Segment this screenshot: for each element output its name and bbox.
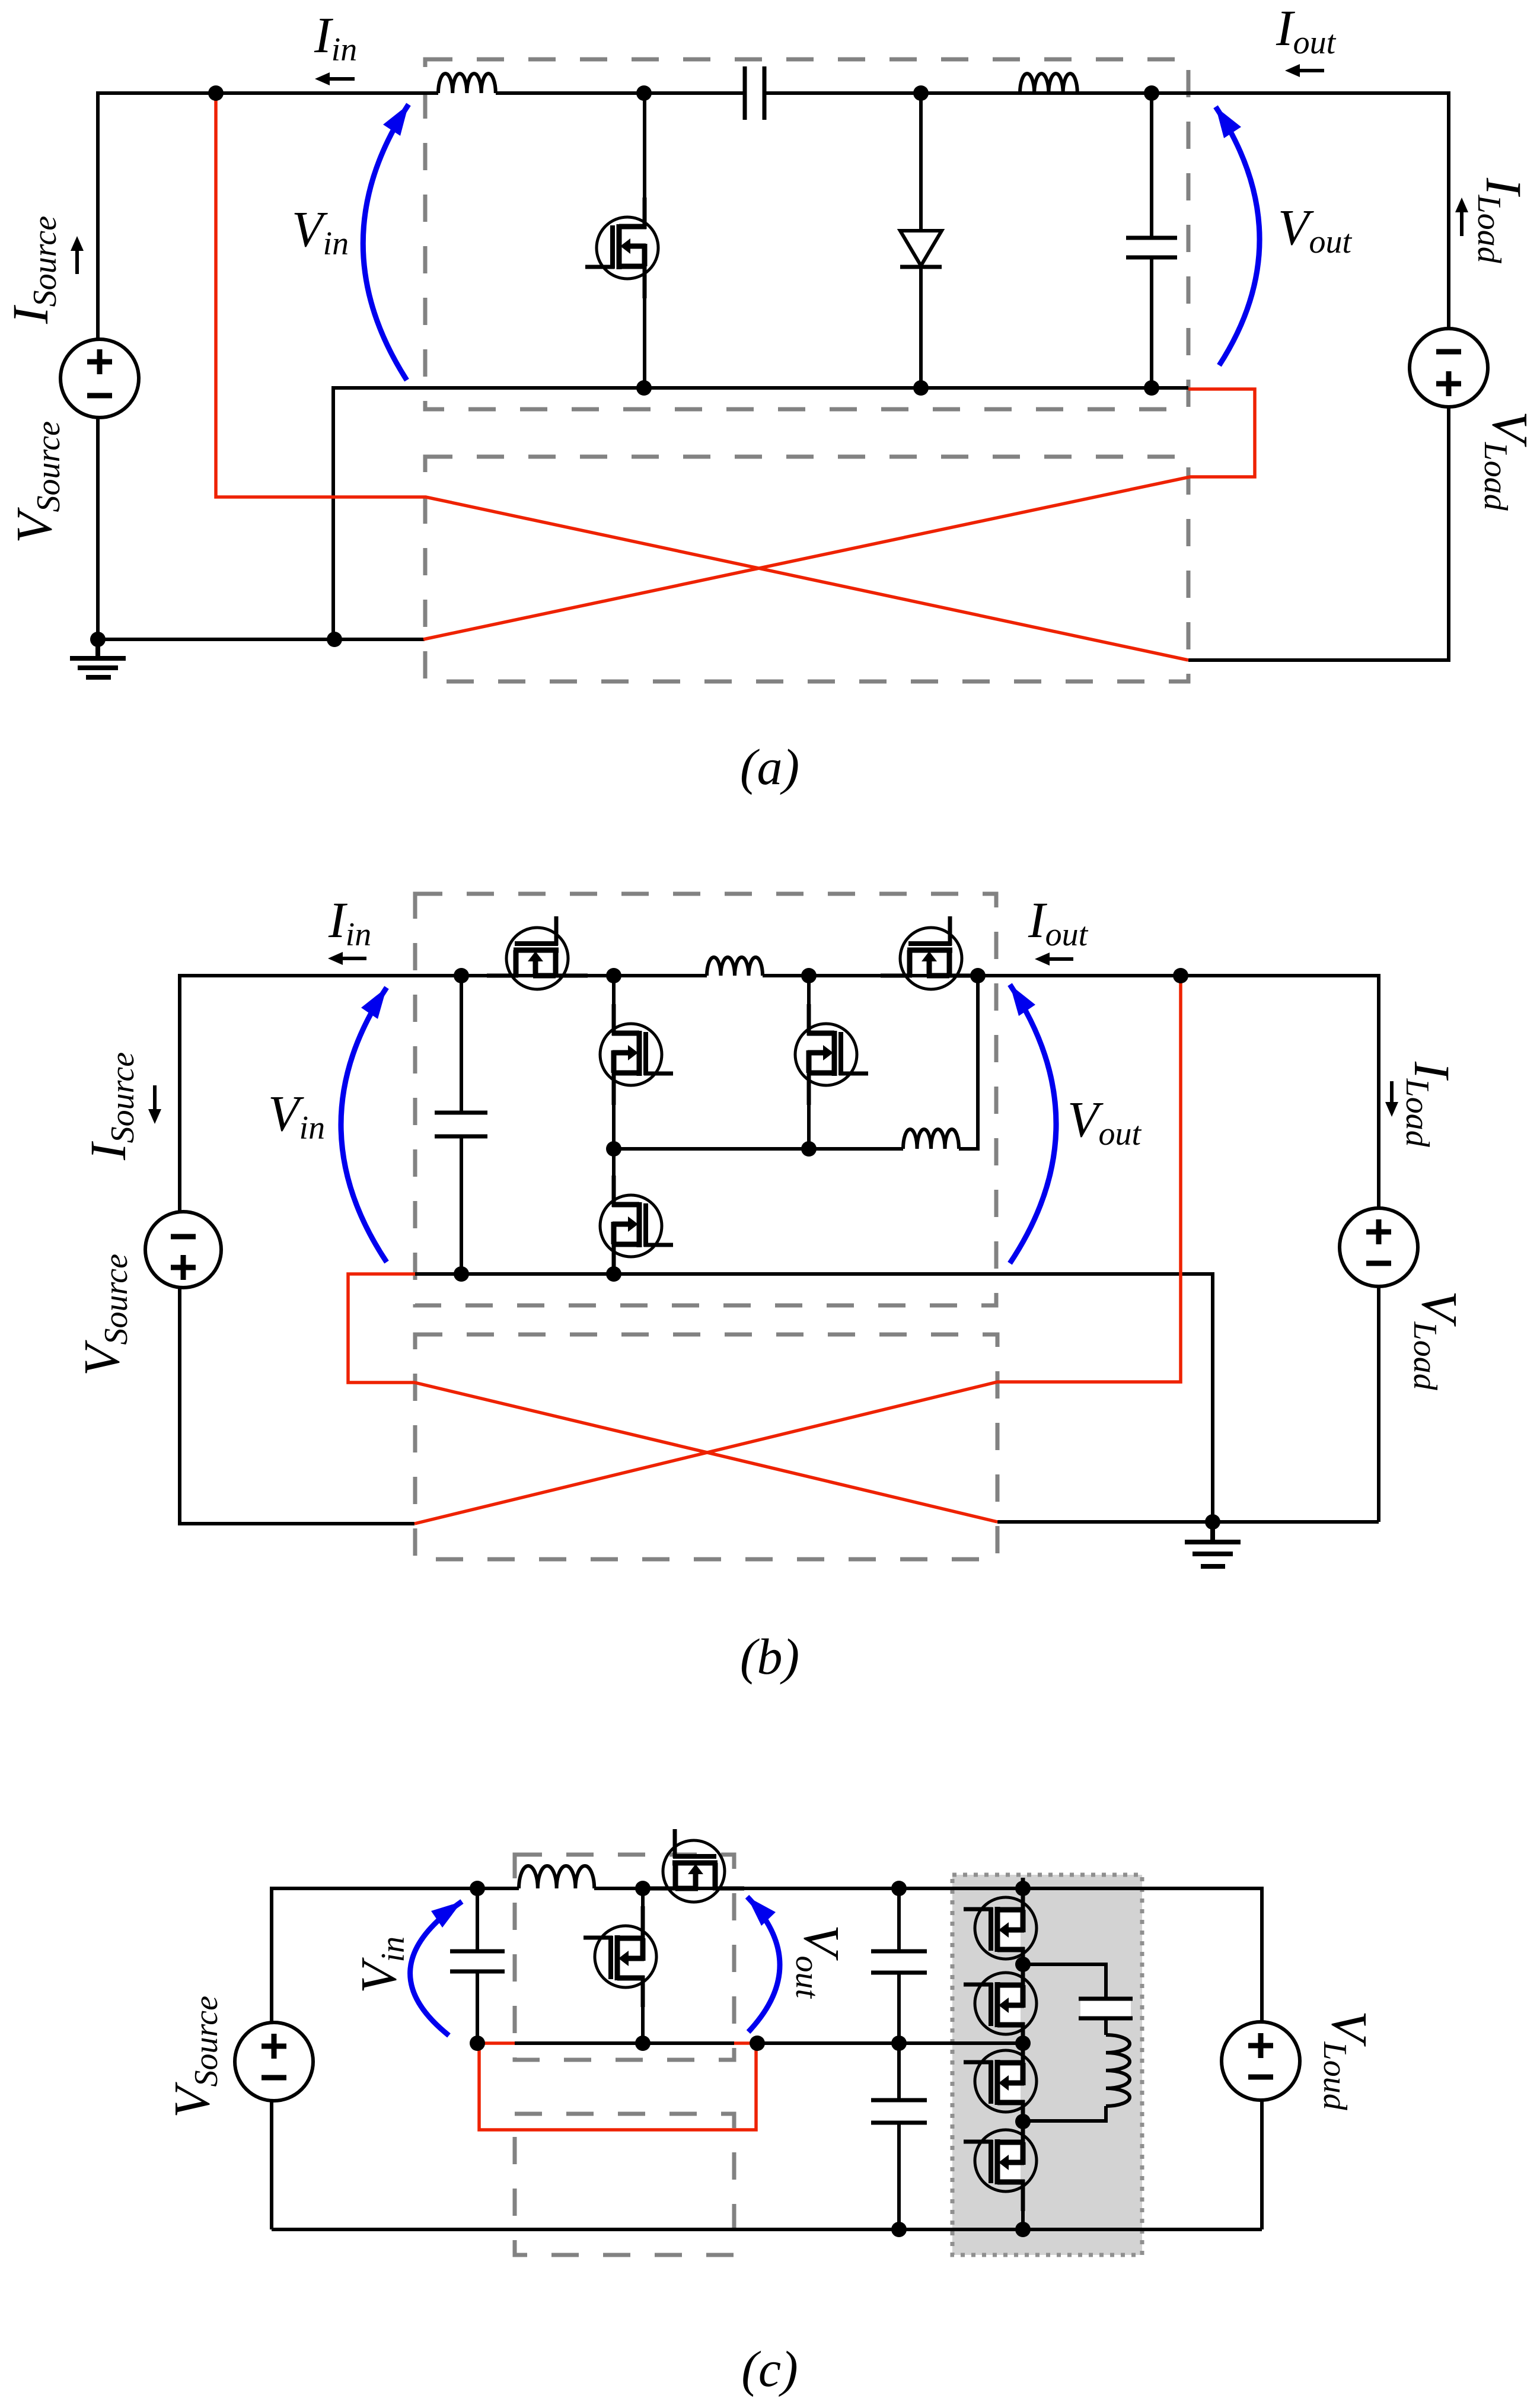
wire: LC branch top (c) — [1023, 1964, 1106, 1998]
arrow ILoad down (b) — [1385, 1081, 1398, 1117]
red wire: U link (c) — [479, 2043, 756, 2130]
wire: mid rail (b) — [614, 1147, 903, 1151]
voltage source Vsource circle (c) — [235, 2022, 313, 2101]
wire: source to ground (a) — [96, 416, 100, 639]
wire: L2 to top rail (b) — [959, 976, 978, 1149]
arrow Isource down (b) — [148, 1085, 161, 1124]
wire: Q3 branch (b) — [807, 976, 811, 1149]
red wire: bottom rail to interconnect (b) — [348, 1274, 997, 1522]
node: diode top (a) — [913, 85, 929, 101]
node: mid rail left (b) — [606, 1141, 621, 1157]
transistor Q2 (b) — [600, 1004, 673, 1105]
wire: Q4 branch (b) — [612, 1149, 616, 1274]
wire: Cin branch (b) — [460, 976, 463, 1274]
wire: converter return rail (a) — [333, 388, 1188, 639]
interconnect dashed box (c) — [515, 2114, 734, 2255]
node: ground left (a) — [90, 632, 106, 647]
svg-text:Iout: Iout — [1028, 891, 1089, 953]
node: Q4 source (b) — [606, 1266, 621, 1282]
red wire: mid rail stub left (c) — [477, 2041, 515, 2045]
interconnect dashed box (b) — [415, 1334, 997, 1559]
wire: LC branch bottom (c) — [1104, 2019, 1108, 2035]
node: red right (c) — [750, 2036, 765, 2051]
svg-text:Vin: Vin — [292, 200, 349, 262]
transistor Q3 (b) — [795, 1004, 868, 1105]
transistor Qc2 (c) — [964, 1953, 1037, 2054]
node: Clo bottom (c) — [891, 2222, 907, 2237]
transistor Q1 (a) — [585, 198, 658, 298]
node: Q1 source rail (a) — [636, 380, 652, 396]
capacitor Chi plates (c) — [871, 1951, 927, 1973]
wire: source bottom (b) — [180, 1286, 415, 1524]
voltage source Vload circle (c) — [1222, 2022, 1300, 2100]
shaded unfolding box (c) — [952, 1875, 1142, 2255]
svg-text:ISource: ISource — [79, 1052, 141, 1161]
transistor Qc1 (c) — [964, 1878, 1037, 1979]
wire: load vertical (c) — [1260, 2098, 1264, 2229]
svg-text:ILoad: ILoad — [1471, 177, 1532, 264]
svg-text:VLoad: VLoad — [1407, 1291, 1468, 1391]
capacitor C1 plates (a) — [745, 66, 764, 120]
svg-text:VSource: VSource — [163, 1996, 225, 2118]
transistor Qmid (c) — [584, 1906, 656, 2007]
svg-text:Vout: Vout — [789, 1925, 850, 1999]
svg-text:Vin: Vin — [350, 1936, 412, 1993]
wire: top rail right (b) — [763, 976, 1379, 1210]
wire: load bottom (a) — [1188, 405, 1449, 660]
ground symbol (b) — [1185, 1522, 1241, 1566]
wire: mid rail left (c) — [515, 2041, 734, 2045]
minus sign (b source) — [171, 1234, 196, 1240]
blue arc Vin (b) — [341, 988, 387, 1262]
transistor Q4 (b) — [600, 1176, 673, 1276]
svg-text:ILoad: ILoad — [1399, 1061, 1461, 1148]
plus sign (a source) — [87, 349, 112, 374]
node: Q2 drain (b) — [606, 968, 621, 983]
red wire: mid rail stub right (c) — [734, 2041, 757, 2045]
blue arc Vout (a) — [1216, 107, 1260, 365]
svg-text:(a): (a) — [740, 738, 799, 795]
node: Qmid drain (c) — [635, 1881, 651, 1896]
node: C2 top (a) — [1144, 85, 1159, 101]
node: red tap (b) — [1173, 968, 1188, 983]
wire: mosfet source (a) — [643, 276, 646, 388]
capacitor Cin plates (b) — [435, 1113, 487, 1136]
minus sign (c source) — [262, 2075, 286, 2081]
svg-text:VLoud: VLoud — [1316, 2011, 1378, 2111]
wire: top rail left (b) — [180, 976, 707, 1213]
svg-text:(c): (c) — [741, 2340, 798, 2397]
red wire: converter return to source ground (a) — [423, 389, 1255, 639]
blue arc Vout (c) — [747, 1897, 780, 2032]
diode D1 (a) — [900, 93, 942, 388]
arrow Iout (a) — [1285, 64, 1324, 77]
wire: output cap branch (c) — [897, 1888, 901, 2229]
inductor L2 (a) — [1020, 74, 1077, 93]
node: input + (a) — [208, 85, 224, 101]
interconnect dashed box (a) — [425, 457, 1188, 681]
minus sign (c load) — [1248, 2075, 1273, 2080]
node: Cin top (c) — [470, 1881, 485, 1896]
node: caps mid (c) — [891, 2036, 907, 2051]
node: Qmid source (c) — [635, 2036, 651, 2051]
wire: bottom rail (b) — [415, 1274, 1213, 1522]
capacitor C2 (a) — [1126, 93, 1177, 388]
svg-text:Vout: Vout — [1278, 199, 1353, 260]
svg-text:Iin: Iin — [328, 891, 371, 953]
current source Vload circle (a) — [1410, 329, 1488, 407]
plus sign (b load) — [1366, 1219, 1391, 1244]
node: ground mid (a) — [327, 632, 342, 647]
inductor L1 (c) — [519, 1866, 594, 1888]
node: Cin top (b) — [454, 968, 469, 983]
plus sign (c load) — [1248, 2033, 1273, 2058]
converter dashed box (a) — [425, 59, 1188, 409]
arrow Iin (a) — [315, 72, 355, 85]
blue arc Vin (c) — [410, 1901, 462, 2036]
wire: top rail mid (a) — [496, 91, 743, 95]
node: C2 bottom (a) — [1144, 380, 1159, 396]
node: output ground (b) — [1205, 1514, 1220, 1530]
wire: bottom rail (c) — [272, 2228, 1262, 2231]
minus sign (b load) — [1366, 1261, 1391, 1266]
red wire: input+ to load- (a) — [216, 95, 1188, 660]
wire: mid rail right (c) — [757, 2041, 1023, 2045]
svg-text:VSource: VSource — [73, 1254, 135, 1376]
arrow Iout (b) — [1035, 953, 1073, 966]
minus sign (a source) — [87, 393, 112, 399]
arrow ILoad up (a) — [1455, 198, 1468, 236]
transistor Q5 on rail (b) — [881, 916, 981, 989]
wire: source bottom (c) — [270, 2099, 273, 2229]
current source Vload circle (b) — [1340, 1208, 1418, 1286]
minus sign (a load) — [1436, 349, 1461, 355]
wire: top rail right (c) — [594, 1888, 1262, 2024]
arrow Isource up (a) — [71, 236, 84, 274]
blue arc Vout (b) — [1010, 985, 1056, 1263]
wire: Qmid branch (c) — [641, 1888, 645, 2043]
transistor Qc4 (c) — [964, 2110, 1037, 2211]
svg-text:VSource: VSource — [5, 421, 67, 543]
node: chain upper (c) — [1015, 1957, 1031, 1972]
node: Cin bottom (b) — [454, 1266, 469, 1282]
inductor L2 (b) — [903, 1129, 959, 1149]
transistor Qtop on rail (c) — [643, 1829, 744, 1902]
svg-text:VLoad: VLoad — [1477, 411, 1539, 511]
svg-text:(b): (b) — [740, 1628, 799, 1685]
svg-text:Iout: Iout — [1276, 0, 1337, 61]
svg-text:Iin: Iin — [314, 7, 357, 68]
plus sign (b source) — [171, 1255, 196, 1280]
wire: mosfet drain (a) — [643, 93, 646, 219]
converter dashed box (c) — [515, 1855, 734, 2060]
node: Cin bottom (c) — [470, 2036, 485, 2051]
wire: Cin branch (c) — [476, 1888, 479, 2043]
wire: top rail left (c) — [272, 1888, 519, 2024]
wire: chain bottom (c) — [1021, 2194, 1025, 2229]
red wire: source return to output rail (b) — [415, 976, 1181, 1524]
node: chain lower (c) — [1015, 2114, 1031, 2129]
wire: Q2 branch (b) — [612, 976, 616, 1149]
capacitor Clo plates (c) — [871, 2100, 927, 2123]
wire: load bottom (b) — [997, 1520, 1379, 1524]
node: Q1 drain rail (a) — [636, 85, 652, 101]
voltage source Vsource circle (b) — [145, 1212, 221, 1288]
svg-text:Vin: Vin — [268, 1085, 325, 1146]
wire: ground rail (a) — [98, 638, 425, 641]
svg-text:Vout: Vout — [1067, 1091, 1142, 1152]
blue arc Vin (a) — [363, 104, 409, 380]
voltage source Vsource circle (a) — [60, 339, 139, 418]
inductor Lvert (c) — [1106, 2035, 1130, 2106]
node: L2 top (b) — [970, 968, 986, 983]
node: Q3 drain (b) — [801, 968, 817, 983]
wire: LC to chain (c) — [1023, 2106, 1106, 2121]
converter dashed box (b) — [415, 894, 996, 1305]
capacitor Clc plates (c) — [1080, 2000, 1131, 2017]
node: diode bottom (a) — [913, 380, 929, 396]
transistor Q1 on rail (b) — [487, 916, 588, 989]
node: chain top (c) — [1015, 1881, 1031, 1896]
wire: load vertical (b) — [1377, 1285, 1380, 1522]
inductor L1 (b) — [707, 957, 763, 976]
node: chain mid (c) — [1015, 2036, 1031, 2051]
ground symbol (a) — [70, 639, 126, 677]
wire: top rail right (a) — [766, 93, 1449, 330]
node: chain bottom (c) — [1015, 2222, 1031, 2237]
arrow Iin (b) — [328, 952, 366, 965]
inductor L1 (a) — [438, 74, 496, 93]
svg-text:ISource: ISource — [2, 216, 63, 324]
node: Chi top (c) — [891, 1881, 907, 1896]
plus sign (c source) — [262, 2034, 286, 2059]
capacitor Cin plates (c) — [450, 1951, 505, 1971]
transistor Qc3 (c) — [964, 2031, 1037, 2132]
wire: top rail left (a) — [98, 93, 438, 341]
node: mid rail right (b) — [801, 1141, 817, 1157]
plus sign (a load) — [1436, 371, 1461, 396]
